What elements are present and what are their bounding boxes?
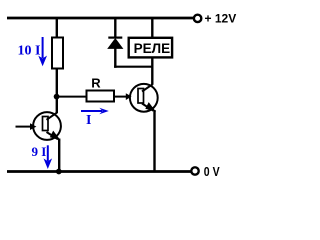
- svg-text:0 V: 0 V: [204, 165, 220, 179]
- resistor R1 (vertical, carries 10I): [52, 38, 63, 69]
- terminal +12V: [194, 12, 236, 26]
- svg-text:9 I: 9 I: [32, 144, 47, 159]
- Q2 base bar: [138, 89, 144, 104]
- junction dot Q1 emitter at rail: [56, 169, 62, 175]
- wire resistor R to Q2 base: [114, 96, 127, 98]
- svg-text:I: I: [86, 113, 91, 128]
- relay K1 box РЕЛЕ: [129, 38, 172, 58]
- wire top +12V rail: [7, 17, 194, 20]
- Q2 base input arrowhead: [126, 93, 132, 100]
- Q2 emitter line with arrow: [142, 102, 156, 112]
- svg-text:R: R: [91, 76, 101, 91]
- wire from top rail to relay box: [151, 18, 153, 38]
- wire diode anode down: [114, 48, 116, 68]
- wire Q1 emitter to bottom rail: [58, 139, 60, 172]
- wire node A down to Q1 collector: [56, 97, 58, 113]
- Q2 collector line: [142, 84, 153, 91]
- Q1 base lead wire: [16, 126, 32, 128]
- resistor R (horizontal): [87, 91, 115, 102]
- wire Q2 emitter to bottom rail: [153, 110, 155, 172]
- transistor Q1 circle: [33, 112, 61, 140]
- label I current arrow: [81, 108, 109, 128]
- wire bottom 0V rail: [7, 170, 191, 173]
- Q1 base input arrowhead: [30, 123, 36, 130]
- label 9I current arrow: [32, 144, 53, 169]
- Q1 base bar: [43, 117, 49, 131]
- svg-text:10 I: 10 I: [18, 44, 41, 59]
- wire node A to resistor R: [57, 96, 88, 98]
- wire Q2 collector up to relay/diode node: [151, 58, 153, 85]
- wire from top rail to diode cathode: [114, 18, 116, 38]
- wire from top rail to resistor R1: [56, 18, 58, 39]
- svg-text:РЕЛЕ: РЕЛЕ: [134, 41, 171, 56]
- Q1 collector line: [47, 112, 58, 119]
- transistor Q2 circle: [130, 84, 158, 112]
- label 10I current arrow: [18, 37, 48, 66]
- terminal 0V: [191, 165, 220, 179]
- wire resistor R1 to node A: [56, 69, 58, 98]
- svg-text:+ 12V: + 12V: [205, 12, 237, 26]
- diode VD1 (flyback, cathode up): [107, 38, 123, 49]
- node A junction dot: [54, 94, 60, 100]
- wire diode anode elbow to node B: [114, 66, 152, 68]
- Q1 emitter line with arrow: [47, 131, 61, 141]
